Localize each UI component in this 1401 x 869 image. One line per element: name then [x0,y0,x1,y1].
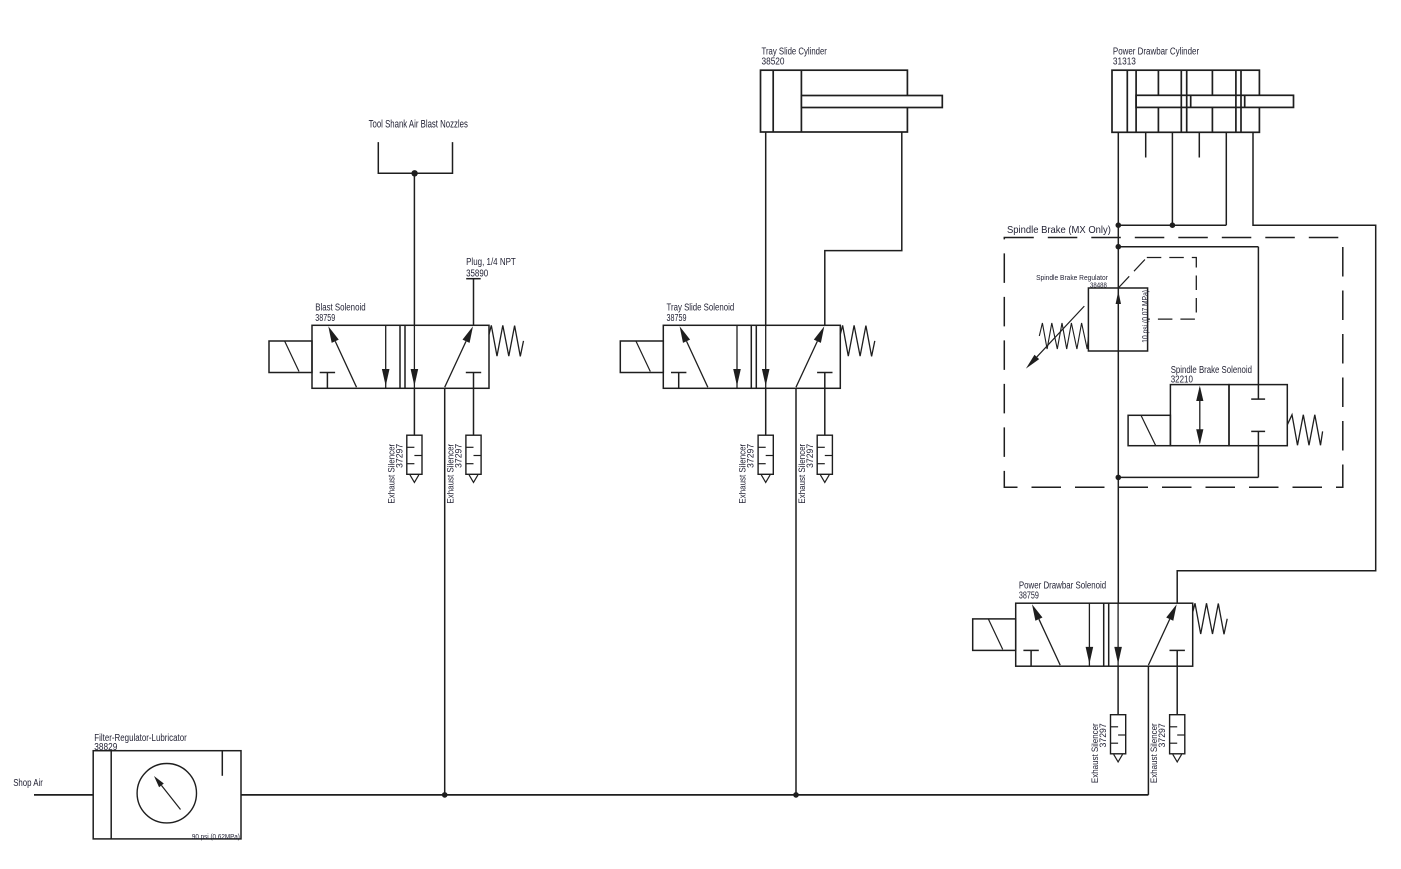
valve Blast Solenoid 38759: right chamber diagonal flow arrow [463,326,473,343]
wire: valve exhaust port to silencer [1117,666,1119,715]
regulator 38488: adjustment spring [1039,323,1088,349]
valve Spindle Brake Solenoid 32210: solenoid diagonal [1141,416,1155,446]
svg-text:38759: 38759 [1019,591,1039,602]
wire: drawbar cylinder port 3 drop [1171,132,1173,225]
valve Power Drawbar Solenoid 38759: right chamber blocked port T [1170,649,1185,651]
wire: main air bus from FRL to Power Drawbar Solenoid [241,794,1148,796]
wire: tray cylinder cap port to Tray Slide Solenoid port A [765,132,767,325]
FRL 38829: gauge needle [154,776,164,787]
regulator 38488: flow arrow (up) [1116,291,1121,304]
regulator 38488: pilot dashed diagonal [1118,258,1147,289]
valve Blast Solenoid 38759: right chamber blocked port T [466,372,481,374]
silencer 37297: outlet vee [761,475,770,483]
cylinder Power Drawbar 31313: rod shoulder edges [1190,95,1192,107]
svg-text:Spindle Brake (MX Only): Spindle Brake (MX Only) [1007,224,1111,236]
silencer 37297: baffle lines [466,446,474,448]
valve Spindle Brake Solenoid 32210: top blocked port T [1251,398,1265,400]
svg-text:Shop Air: Shop Air [13,778,43,789]
silencer 37297: baffle lines [758,446,766,448]
regulator 38488: adjustment arrow [1026,355,1039,369]
wire: main line branch to Spindle Brake Solenoid top port [1118,246,1258,248]
cylinder Power Drawbar 31313: piston rod [1136,95,1293,107]
valve Power Drawbar Solenoid 38759: solenoid actuator box [973,619,1016,651]
valve Blast Solenoid 38759: solenoid diagonal [285,341,299,372]
svg-text:37297: 37297 [1157,723,1167,747]
wire: drawbar cylinder manifold [1118,224,1226,226]
silencer 37297: body [466,435,481,474]
nozzle manifold bracket [378,142,452,173]
svg-text:31313: 31313 [1113,57,1136,68]
svg-text:38759: 38759 [667,313,687,324]
valve Blast Solenoid 38759: left chamber blocked port T [320,372,335,374]
svg-text:10 psi (0.07 MPa): 10 psi (0.07 MPa) [1141,290,1150,343]
silencer 37297: outlet vee [820,475,829,483]
svg-text:37297: 37297 [454,444,464,468]
valve Tray Slide Solenoid 38759: left chamber down flow arrow [736,325,738,388]
wire: drawbar cylinder vent stub 1 [1145,132,1147,157]
valve Tray Slide Solenoid 38759: solenoid actuator box [620,341,663,373]
valve Tray Slide Solenoid 38759: left chamber blocked port T [671,372,686,374]
valve Power Drawbar Solenoid 38759: return spring [1193,603,1228,634]
valve Blast Solenoid 38759: return spring [489,325,524,356]
valve Tray Slide Solenoid 38759: left chamber diagonal flow arrow [680,326,690,343]
silencer 37297: body [1111,715,1126,754]
svg-text:37297: 37297 [394,444,404,468]
valve Power Drawbar Solenoid 38759: solenoid diagonal [988,619,1002,650]
valve Spindle Brake Solenoid 32210: return spring [1287,415,1322,446]
valve Spindle Brake Solenoid 32210: left chamber [1170,385,1229,446]
svg-text:37297: 37297 [1098,723,1108,747]
valve Spindle Brake Solenoid 32210: bottom blocked port T [1251,430,1265,432]
silencer 37297: body [758,435,773,474]
silencer 37297: baffle lines [1170,726,1178,728]
silencer 37297: body [1170,715,1185,754]
silencer 37297: body [817,435,832,474]
cylinder Tray Slide 38520: piston rod [801,96,942,108]
valve Power Drawbar Solenoid 38759: right chamber down flow arrow [1117,603,1119,666]
valve Tray Slide Solenoid 38759: solenoid diagonal [636,341,650,372]
svg-text:38759: 38759 [315,313,335,324]
valve Power Drawbar Solenoid 38759: left chamber down flow arrow [1088,603,1090,666]
wire: valve exhaust port to silencer [1176,666,1178,715]
valve Blast Solenoid 38759: left chamber down flow arrow [385,325,387,388]
silencer 37297: baffle lines [407,446,415,448]
wire: Blast Solenoid supply drop to air bus [444,388,446,795]
wire: plug to Blast Solenoid port B [473,279,475,326]
node: branch to Spindle Brake Solenoid inlet [1116,244,1122,250]
wire: valve exhaust port to silencer [765,388,767,435]
cylinder Tray Slide 38520: piston line [772,70,774,132]
node: manifold junction 2 [1170,222,1176,228]
cylinder Tray Slide 38520: piston face line [800,70,802,132]
svg-text:38520: 38520 [762,57,785,68]
cylinder Power Drawbar 31313: piston discs [1126,70,1128,132]
wire: valve exhaust port to silencer [413,388,415,435]
valve Tray Slide Solenoid 38759: chamber divider lines [750,325,752,388]
wire: Tray Slide Solenoid supply drop to air bus [795,388,797,795]
valve Tray Slide Solenoid 38759: right chamber diagonal flow arrow [814,326,824,343]
valve Power Drawbar Solenoid 38759: left chamber diagonal flow arrow [1032,604,1042,621]
valve Power Drawbar Solenoid 38759: left chamber blocked port T [1023,649,1038,651]
plug 35890: cap bar [466,278,481,280]
valve Tray Slide Solenoid 38759: return spring [840,325,875,356]
silencer 37297: outlet vee [1114,754,1123,762]
svg-text:37297: 37297 [746,444,756,468]
wire: drawbar cylinder vent stub 2 [1198,132,1200,157]
valve Blast Solenoid 38759: solenoid actuator box [269,341,312,373]
valve Blast Solenoid 38759: left chamber diagonal flow arrow [328,326,338,343]
silencer 37297: outlet vee [1173,754,1182,762]
valve Power Drawbar Solenoid 38759: body (5/2) [1016,603,1193,666]
wire: valve exhaust port to silencer [824,388,826,435]
FRL 38829: lubricator tick [221,751,223,776]
valve Tray Slide Solenoid 38759: right chamber blocked port T [817,372,832,374]
valve Power Drawbar Solenoid 38759: chamber divider lines [1103,603,1105,666]
svg-text:Plug, 1/4 NPT: Plug, 1/4 NPT [466,257,516,268]
cylinder Tray Slide 38520: body [761,70,908,132]
svg-text:35890: 35890 [466,269,488,280]
cylinder Power Drawbar 31313: body [1112,70,1259,132]
silencer 37297: outlet vee [410,475,419,483]
regulator 38488: pilot dashed box [1147,258,1197,320]
wire: Power Drawbar Solenoid supply drop to air bus [1147,666,1149,795]
valve Power Drawbar Solenoid 38759: right chamber diagonal flow arrow [1166,604,1176,621]
node: branch from main line to Spindle Brake Solenoid bottom port [1116,475,1122,481]
valve Blast Solenoid 38759: body (5/2) [312,325,489,388]
node: nozzle manifold junction [411,170,417,176]
wire: shop air inlet [34,794,93,796]
FRL 38829: gauge dial [137,764,196,823]
svg-text:Tool Shank Air Blast Nozzles: Tool Shank Air Blast Nozzles [369,118,469,130]
cylinder Power Drawbar 31313: stage separator walls [1157,70,1159,132]
wire: Spindle Brake Solenoid bottom port loop [1118,476,1258,478]
svg-text:37297: 37297 [805,444,815,468]
valve Spindle Brake Solenoid 32210: double-headed flow arrow [1199,388,1201,443]
wire: drawbar cylinder port 5 drop [1225,132,1227,225]
valve Tray Slide Solenoid 38759: right chamber down flow arrow [765,325,767,388]
wire: drawbar cylinder port 6 to Power Drawbar Solenoid port B [1177,132,1376,603]
silencer 37297: baffle lines [817,446,825,448]
wire: valve exhaust port to silencer [473,388,475,435]
FRL 38829: filter divider [110,751,112,839]
silencer 37297: body [407,435,422,474]
node: bus junction at Tray Slide Solenoid supply [793,792,799,798]
spindle brake enclosure (dashed) [1004,238,1343,488]
wire: drawbar cylinder port 1 main line down through spindle brake to Power Drawbar Solenoid [1117,132,1119,603]
valve Tray Slide Solenoid 38759: body (5/2) [663,325,840,388]
valve Blast Solenoid 38759: right chamber down flow arrow [413,325,415,388]
valve Blast Solenoid 38759: chamber divider lines [399,325,401,388]
valve Spindle Brake Solenoid 32210: solenoid actuator box [1128,415,1170,445]
regulator 38488: body [1088,288,1147,351]
silencer 37297: outlet vee [469,475,478,483]
node: manifold junction 1 [1116,222,1122,228]
wire: nozzle manifold to Blast Solenoid port A [413,173,415,325]
valve Spindle Brake Solenoid 32210: right chamber [1229,385,1287,446]
svg-text:90 psi (0.62MPa): 90 psi (0.62MPa) [192,832,240,841]
wire: tray cylinder rod port to Tray Slide Solenoid port B [825,132,902,325]
silencer 37297: baffle lines [1111,726,1119,728]
FRL 38829: body [93,751,241,839]
node: bus junction at Blast Solenoid supply [442,792,448,798]
